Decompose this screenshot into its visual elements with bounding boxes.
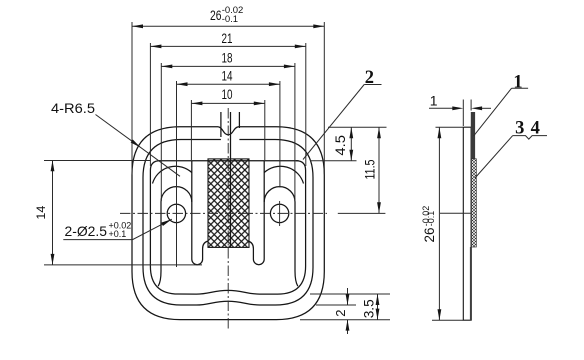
svg-text:4.5: 4.5 bbox=[332, 135, 348, 156]
svg-text:-0.1: -0.1 bbox=[222, 14, 238, 25]
svg-text:26: 26 bbox=[422, 228, 437, 243]
svg-text:2: 2 bbox=[333, 310, 348, 317]
svg-text:3: 3 bbox=[515, 118, 524, 138]
svg-text:26: 26 bbox=[210, 7, 222, 23]
svg-text:-0.1: -0.1 bbox=[426, 211, 436, 227]
svg-text:+0.1: +0.1 bbox=[109, 229, 127, 239]
svg-text:18: 18 bbox=[222, 49, 233, 65]
svg-text:4-R6.5: 4-R6.5 bbox=[51, 101, 95, 116]
svg-text:10: 10 bbox=[222, 86, 233, 102]
svg-text:2: 2 bbox=[365, 68, 374, 88]
svg-text:14: 14 bbox=[222, 68, 233, 84]
svg-text:14: 14 bbox=[34, 205, 48, 219]
svg-text:21: 21 bbox=[222, 30, 233, 46]
svg-text:3.5: 3.5 bbox=[360, 299, 376, 318]
svg-text:11.5: 11.5 bbox=[362, 159, 378, 179]
svg-text:4: 4 bbox=[531, 118, 540, 138]
svg-text:1: 1 bbox=[430, 93, 438, 109]
svg-text:1: 1 bbox=[513, 72, 522, 92]
svg-text:2-Ø2.5: 2-Ø2.5 bbox=[65, 223, 108, 239]
